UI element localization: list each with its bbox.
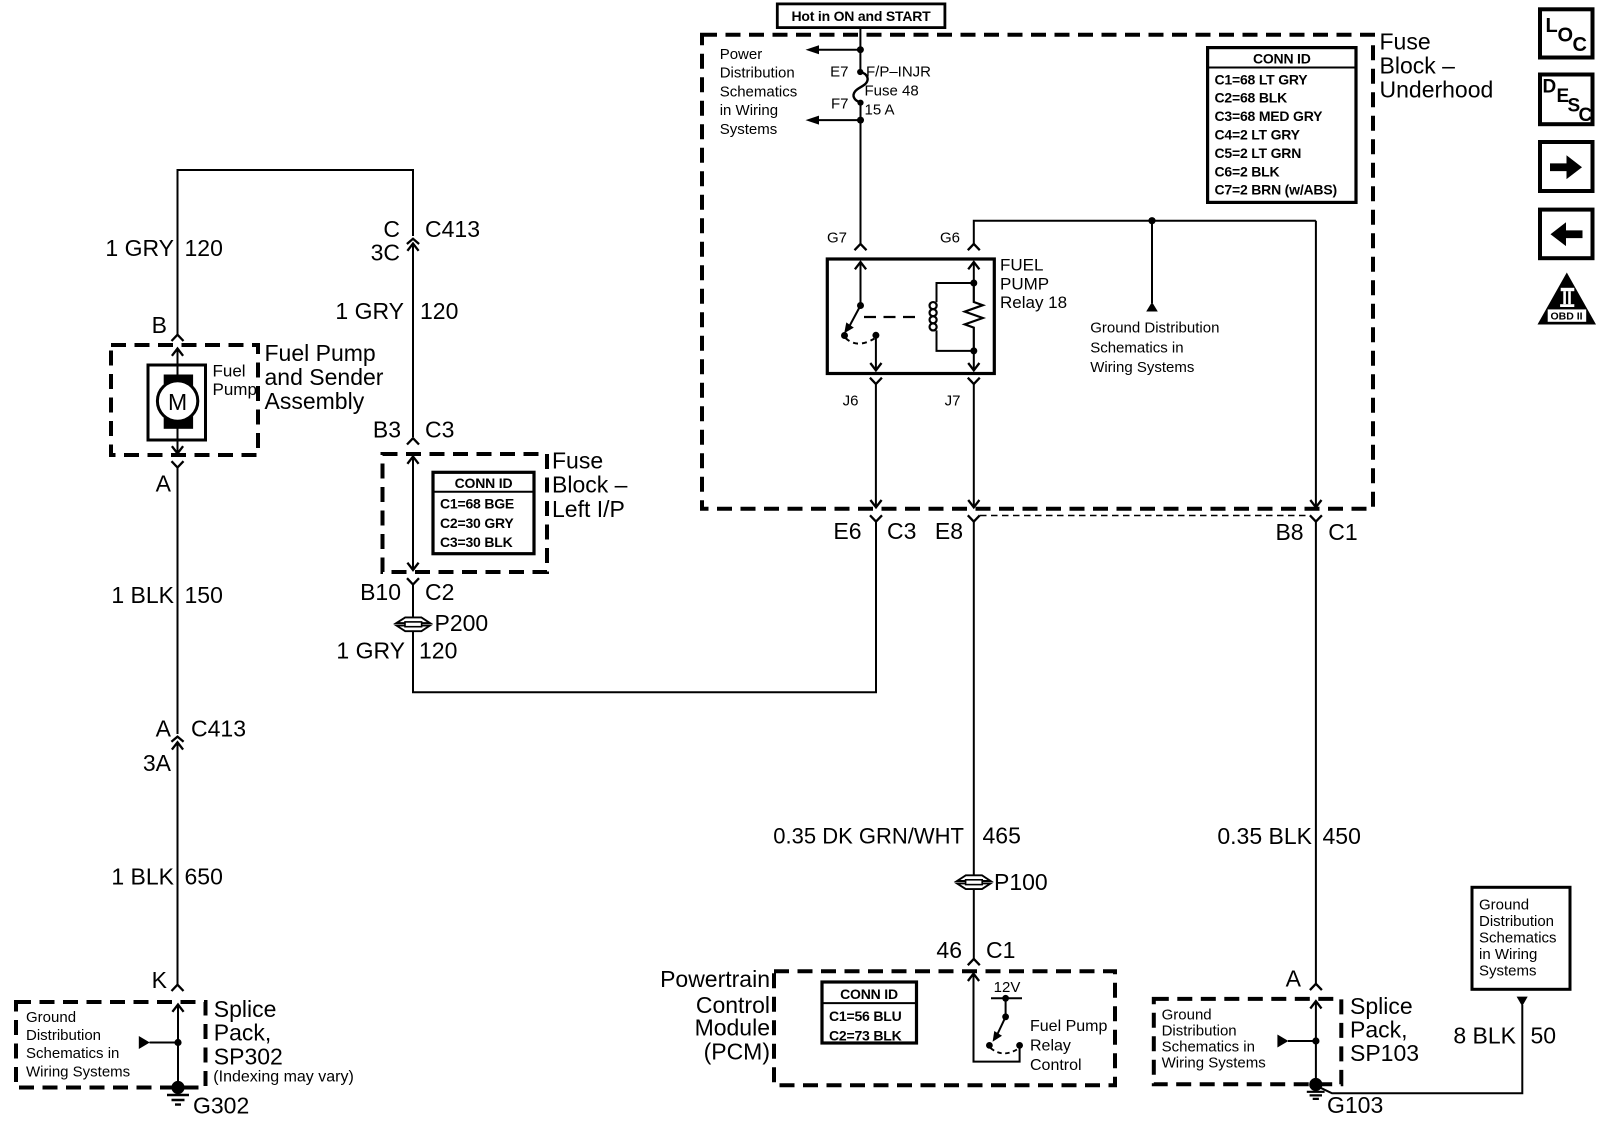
wire: top loop from fuel pump B up and over to C413 branch	[178, 170, 414, 335]
label 0.35 BLK 450	[1217, 823, 1361, 849]
node E8	[935, 515, 980, 544]
connector C413 top (pins C / 3C)	[371, 216, 480, 266]
svg-text:in Wiring: in Wiring	[1479, 946, 1537, 963]
svg-text:B8: B8	[1275, 519, 1303, 545]
svg-text:Underhood: Underhood	[1380, 77, 1494, 103]
pass-through grommet P100	[957, 869, 1048, 895]
splice SP302 branch triangle	[139, 1036, 182, 1049]
label 8 BLK 50	[1453, 1023, 1556, 1049]
svg-text:450: 450	[1323, 823, 1361, 849]
svg-text:Pack,: Pack,	[1350, 1017, 1408, 1043]
wire: E8 down to P100	[973, 522, 975, 875]
svg-text:8 BLK: 8 BLK	[1453, 1023, 1516, 1049]
PCM 12V supply bar	[991, 979, 1022, 1002]
svg-text:0.35 DK GRN/WHT: 0.35 DK GRN/WHT	[773, 824, 964, 849]
svg-text:PUMP: PUMP	[1000, 274, 1049, 293]
svg-text:Relay 18: Relay 18	[1000, 293, 1067, 312]
svg-text:120: 120	[419, 638, 457, 664]
fuel pump motor M1	[148, 365, 206, 440]
label 1 GRY 120 (below P200)	[336, 638, 457, 664]
PCM dashed box	[774, 971, 1115, 1085]
svg-text:P100: P100	[994, 869, 1048, 895]
svg-text:Schematics in: Schematics in	[1090, 339, 1183, 356]
svg-text:1 GRY: 1 GRY	[105, 235, 174, 261]
svg-text:Block –: Block –	[552, 472, 628, 498]
wire: 8 BLK 50 to G103	[1320, 1005, 1523, 1093]
svg-text:G302: G302	[193, 1093, 249, 1119]
triangle from reference box to 8 BLK wire	[1517, 997, 1528, 1007]
CONN ID table (left IP)	[433, 472, 534, 553]
svg-text:C1: C1	[986, 937, 1015, 963]
svg-text:G6: G6	[940, 230, 960, 247]
node A (fuel pump connector pin)	[156, 461, 184, 496]
wire: pin 46 into PCM switch loop	[968, 974, 1020, 1062]
fuse F/P-INJR Fuse 48 15A	[854, 63, 932, 118]
label 1 GRY 120 (left wire)	[105, 235, 222, 261]
label Powertrain Control Module (PCM)	[660, 966, 770, 1065]
svg-text:120: 120	[185, 235, 223, 261]
relay switch arm	[844, 306, 860, 334]
label Ground Distribution Schematics in Wiring Systems (SP302)	[26, 1009, 130, 1081]
wire: coil branch to G6 and J7 arrows	[968, 262, 979, 370]
relay switch common (from G7)	[855, 262, 866, 309]
svg-text:D: D	[1543, 77, 1557, 98]
svg-text:C2=68 BLK: C2=68 BLK	[1215, 90, 1288, 106]
ground G103	[1307, 1078, 1383, 1118]
svg-text:(PCM): (PCM)	[704, 1039, 770, 1065]
svg-text:Ground: Ground	[1162, 1006, 1212, 1023]
svg-text:(Indexing may vary): (Indexing may vary)	[213, 1069, 353, 1086]
fuse F48 terminal E7	[830, 63, 863, 80]
node B8 / C1	[1275, 515, 1357, 545]
svg-text:A: A	[156, 471, 172, 497]
svg-text:Wiring Systems: Wiring Systems	[1090, 359, 1194, 376]
svg-text:Fuse: Fuse	[1380, 29, 1431, 55]
pass-through grommet P200	[396, 610, 488, 636]
svg-text:46: 46	[936, 937, 962, 963]
label Ground Distribution Schematics in Wiring Systems (underhood)	[1090, 320, 1219, 377]
svg-text:Distribution: Distribution	[720, 65, 795, 82]
svg-text:F/P–INJR: F/P–INJR	[866, 63, 931, 80]
svg-text:C413: C413	[425, 216, 480, 242]
wire: P200 down and right to J6 branch	[413, 522, 876, 693]
node B10 / C2	[360, 578, 454, 605]
svg-text:Schematics in: Schematics in	[1162, 1038, 1255, 1055]
svg-text:L: L	[1546, 15, 1558, 37]
wire: P100 down to PCM pin 46	[973, 890, 975, 959]
svg-text:12V: 12V	[994, 979, 1021, 996]
svg-text:C2=30 GRY: C2=30 GRY	[440, 515, 514, 531]
junction to power distribution (lower arrow)	[806, 116, 865, 125]
node G6 (relay pin)	[940, 230, 980, 251]
svg-text:K: K	[152, 967, 168, 993]
svg-text:Wiring Systems: Wiring Systems	[1162, 1055, 1266, 1072]
svg-text:Schematics in: Schematics in	[26, 1045, 119, 1062]
svg-text:C6=2 BLK: C6=2 BLK	[1215, 163, 1280, 179]
wire: A into SP103 with up arrow	[1310, 1001, 1321, 1084]
svg-text:Control: Control	[1030, 1057, 1082, 1074]
CONN ID table (underhood)	[1208, 48, 1356, 203]
wire: A down to C413 lower	[177, 468, 179, 735]
wire: B8 drop to fuse block edge	[1310, 221, 1321, 508]
splice pack SP103 dashed box	[1154, 999, 1342, 1084]
svg-text:C5=2 LT GRN: C5=2 LT GRN	[1215, 145, 1302, 161]
svg-text:Hot in ON and START: Hot in ON and START	[791, 8, 931, 24]
icon forward arrow	[1540, 142, 1593, 191]
svg-text:Fuse: Fuse	[552, 448, 603, 474]
svg-text:Schematics: Schematics	[720, 83, 798, 100]
svg-text:Block –: Block –	[1380, 53, 1456, 79]
svg-text:Fuel Pump: Fuel Pump	[265, 340, 376, 366]
fuse block underhood dashed box	[702, 35, 1373, 509]
svg-text:C1=68 LT GRY: C1=68 LT GRY	[1215, 71, 1309, 87]
label Fuel Pump (motor)	[213, 362, 257, 400]
svg-text:Distribution: Distribution	[26, 1027, 101, 1044]
svg-text:C4=2 LT GRY: C4=2 LT GRY	[1215, 127, 1301, 143]
relay K18 box	[827, 259, 994, 374]
wire: pin B into motor	[172, 349, 183, 367]
svg-text:C1=56 BLU: C1=56 BLU	[829, 1008, 902, 1024]
svg-text:C1=68 BGE: C1=68 BGE	[440, 496, 514, 512]
svg-text:P200: P200	[435, 610, 489, 636]
wire: K into SP302 with up arrow	[172, 1005, 183, 1088]
label Splice Pack SP302	[213, 996, 353, 1086]
svg-text:in Wiring: in Wiring	[720, 102, 778, 119]
svg-text:3C: 3C	[371, 240, 400, 266]
svg-text:C2: C2	[425, 579, 454, 605]
svg-text:Assembly: Assembly	[265, 388, 365, 414]
svg-text:C3: C3	[887, 518, 916, 544]
label Fuse Block - Left I/P	[552, 448, 628, 523]
wire: J6 down to fuse block edge	[870, 384, 881, 507]
relay coil top node	[970, 280, 977, 287]
svg-text:C3=30 BLK: C3=30 BLK	[440, 534, 513, 550]
svg-text:Distribution: Distribution	[1479, 913, 1554, 930]
wire: B10 to P200	[412, 585, 414, 618]
svg-text:SP103: SP103	[1350, 1040, 1419, 1066]
svg-text:3A: 3A	[143, 750, 172, 776]
node G7 (relay pin)	[827, 230, 867, 251]
svg-text:E8: E8	[935, 518, 963, 544]
wire: B8 down to SP103 pin A	[1315, 522, 1317, 984]
svg-text:CONN ID: CONN ID	[1253, 51, 1311, 67]
icon DESC	[1540, 75, 1593, 127]
svg-text:C: C	[1579, 105, 1593, 126]
svg-text:Module: Module	[695, 1015, 770, 1041]
node 46 / C1 (PCM pin)	[936, 937, 1015, 965]
svg-text:Ground: Ground	[1479, 897, 1529, 914]
svg-text:C7=2 BRN (w/ABS): C7=2 BRN (w/ABS)	[1215, 182, 1337, 198]
relay coil L1	[930, 283, 974, 351]
svg-text:1 GRY: 1 GRY	[335, 298, 404, 324]
splice SP103 branch triangle	[1277, 1035, 1319, 1048]
svg-text:OBD II: OBD II	[1551, 311, 1583, 323]
icon OBD II	[1538, 273, 1597, 325]
connector C413 lower (pins A / 3A)	[143, 716, 246, 777]
svg-text:Fuse 48: Fuse 48	[865, 82, 919, 99]
relay switch NO contact	[841, 332, 879, 344]
svg-text:Relay: Relay	[1030, 1038, 1071, 1055]
svg-text:Systems: Systems	[1479, 963, 1537, 980]
svg-text:and Sender: and Sender	[265, 364, 384, 390]
relay actuation dashed link	[864, 316, 923, 318]
wire: hot feed down from Hot box	[859, 28, 861, 71]
CONN ID table (PCM)	[822, 982, 917, 1044]
connector row dashed link E8 to B8	[980, 515, 1309, 517]
node B (fuel pump connector pin)	[152, 312, 184, 341]
wire: contact to J6 with down arrow	[870, 335, 881, 370]
svg-text:Splice: Splice	[214, 996, 277, 1022]
wire: C413 lower down to K	[177, 742, 179, 984]
relay coil bottom node	[970, 347, 977, 354]
svg-text:1 GRY: 1 GRY	[336, 638, 405, 664]
svg-text:150: 150	[185, 582, 223, 608]
svg-text:C: C	[383, 216, 400, 242]
ground G302	[167, 1081, 249, 1119]
wire: through fuse block left IP	[407, 457, 418, 571]
fuse F48 terminal F7	[831, 96, 864, 113]
svg-text:Pack,: Pack,	[214, 1020, 272, 1046]
wire: J7 down to fuse block edge	[968, 384, 979, 507]
splice pack SP302 dashed box	[16, 1002, 206, 1088]
label 0.35 DK GRN/WHT 465	[773, 823, 1021, 849]
node J7 (relay pin)	[945, 378, 980, 410]
svg-text:E7: E7	[830, 63, 848, 80]
svg-text:Distribution: Distribution	[1162, 1022, 1237, 1039]
label Fuel Pump Relay Control	[1030, 1018, 1107, 1074]
svg-text:C2=73 BLK: C2=73 BLK	[829, 1028, 902, 1044]
svg-text:SP302: SP302	[214, 1043, 283, 1069]
icon back arrow	[1540, 210, 1593, 259]
svg-text:1 BLK: 1 BLK	[111, 864, 174, 890]
svg-text:Ground Distribution: Ground Distribution	[1090, 320, 1219, 337]
svg-text:Schematics: Schematics	[1479, 930, 1557, 947]
node B3 / C3 (fuse block left IP entry)	[373, 417, 455, 445]
svg-text:E6: E6	[833, 518, 861, 544]
svg-text:B: B	[152, 312, 167, 338]
PCM switch arm fuel pump relay control	[993, 1017, 1006, 1042]
label Power Distribution Schematics in Wiring Systems	[720, 46, 798, 138]
label 1 BLK 150	[111, 582, 223, 608]
label Fuse Block - Underhood	[1380, 29, 1494, 103]
svg-text:G103: G103	[1327, 1092, 1383, 1118]
svg-text:Pump: Pump	[213, 380, 257, 399]
svg-text:Powertrain: Powertrain	[660, 966, 770, 992]
svg-text:CONN ID: CONN ID	[840, 986, 898, 1002]
wire: motor to pin A with down arrow	[172, 440, 183, 454]
label 1 GRY 120 (branch wire)	[335, 298, 458, 324]
svg-text:C1: C1	[1328, 519, 1357, 545]
svg-text:B10: B10	[360, 579, 401, 605]
node J6 (relay pin)	[843, 378, 882, 410]
node E6 / C3	[833, 515, 916, 544]
label 1 BLK 650	[111, 864, 223, 890]
svg-text:J6: J6	[843, 392, 859, 409]
svg-text:Systems: Systems	[720, 121, 778, 138]
svg-text:Fuel: Fuel	[213, 362, 246, 381]
relay resistor R1	[965, 283, 983, 351]
junction and triangle to ground distribution reference	[1146, 217, 1158, 311]
svg-text:Ground: Ground	[26, 1009, 76, 1026]
PCM switch pivot	[1002, 998, 1009, 1020]
svg-text:1 BLK: 1 BLK	[111, 582, 174, 608]
junction to power distribution (upper arrow)	[806, 45, 864, 54]
svg-text:Fuel Pump: Fuel Pump	[1030, 1018, 1107, 1035]
svg-text:A: A	[1286, 966, 1302, 992]
svg-text:Power: Power	[720, 46, 763, 63]
svg-text:FUEL: FUEL	[1000, 256, 1043, 275]
wire: C413 down to B3	[412, 244, 414, 438]
node K (splice pack pin)	[152, 967, 184, 993]
svg-text:Wiring Systems: Wiring Systems	[26, 1064, 130, 1081]
PCM switch contacts	[986, 1042, 1023, 1053]
svg-text:F7: F7	[831, 96, 849, 113]
svg-text:J7: J7	[945, 392, 961, 409]
svg-text:A: A	[156, 716, 172, 742]
svg-text:M: M	[168, 389, 187, 415]
svg-text:CONN ID: CONN ID	[455, 475, 513, 491]
label Splice Pack SP103	[1350, 993, 1419, 1066]
label FUEL PUMP Relay 18	[1000, 256, 1067, 313]
svg-text:120: 120	[420, 298, 458, 324]
box Hot in ON and START	[777, 4, 945, 28]
svg-text:G7: G7	[827, 230, 847, 247]
wire: fuse output down to G7	[860, 103, 862, 244]
wire: G6 up and over to B8 drop	[974, 221, 1316, 244]
label Fuel Pump and Sender Assembly	[265, 340, 384, 414]
svg-text:O: O	[1558, 25, 1574, 47]
label Ground Distribution Schematics in Wiring Systems (SP103)	[1162, 1006, 1266, 1071]
svg-text:650: 650	[185, 864, 223, 890]
icon LOC	[1540, 9, 1593, 57]
fuel pump and sender assembly dashed box	[111, 345, 258, 455]
svg-text:50: 50	[1531, 1023, 1557, 1049]
svg-text:C: C	[1573, 34, 1587, 56]
svg-text:Splice: Splice	[1350, 993, 1413, 1019]
svg-text:B3: B3	[373, 417, 401, 443]
svg-text:Left I/P: Left I/P	[552, 496, 625, 522]
svg-text:0.35 BLK: 0.35 BLK	[1217, 823, 1312, 849]
svg-text:465: 465	[983, 823, 1021, 849]
fuse block left IP dashed box	[383, 454, 548, 572]
svg-text:C413: C413	[191, 716, 246, 742]
svg-text:C3: C3	[425, 417, 454, 443]
svg-text:C3=68 MED GRY: C3=68 MED GRY	[1215, 108, 1324, 124]
node A (SP103 pin)	[1286, 966, 1322, 992]
ground distribution schematics reference box (right)	[1472, 887, 1570, 989]
svg-text:15 A: 15 A	[865, 101, 895, 118]
